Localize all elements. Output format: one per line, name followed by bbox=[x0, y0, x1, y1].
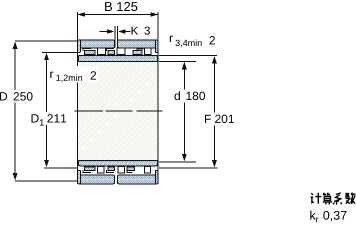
outer ring bottom left half bbox=[78, 175, 114, 184]
label r3,4min 2 bbox=[170, 36, 215, 48]
char ji (calculate) bbox=[311, 193, 322, 204]
dimension F 201 bbox=[159, 56, 234, 169]
dimension K 3 bbox=[100, 26, 150, 48]
dimension B 125 bbox=[78, 2, 159, 40]
char xi (system) bbox=[333, 193, 342, 205]
label kr 0,37 bbox=[310, 211, 346, 223]
outer ring right flange bbox=[155, 40, 158, 52]
outer ring top left half bbox=[78, 40, 114, 48]
top roller row rollers bbox=[97, 48, 151, 55]
bottom roller row spacers bbox=[83, 167, 134, 173]
bearing side faces bbox=[78, 40, 159, 184]
outer ring bottom right half bbox=[117, 175, 157, 184]
top roller row spacers bbox=[83, 49, 143, 55]
bottom roller row rollers bbox=[97, 166, 150, 173]
label r1,2min 2 bbox=[48, 66, 98, 83]
dimension d 180 bbox=[159, 61, 205, 161]
outer ring left flange bbox=[78, 40, 81, 52]
dimension D 250 bbox=[0, 41, 78, 181]
inner ring top band bbox=[78, 55, 157, 61]
char shu (number) bbox=[345, 193, 355, 204]
outer ring top right half bbox=[117, 40, 157, 48]
outer ring bottom right flange bbox=[155, 170, 158, 184]
dimension D1 211 bbox=[32, 52, 78, 168]
inner ring bore middle area bbox=[78, 62, 159, 160]
label calculation factor (Chinese) bbox=[311, 193, 356, 205]
char suan (count) bbox=[323, 193, 332, 205]
inner ring bottom band bbox=[78, 160, 157, 165]
outer ring bottom left flange bbox=[78, 170, 81, 184]
centerline axis bbox=[75, 110, 163, 112]
